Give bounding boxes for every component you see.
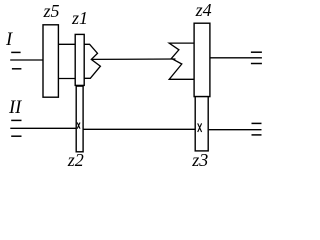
bearing hatch lower, left end of shaft II (11, 135, 21, 137)
gear z3 rectangle on shaft II (195, 97, 208, 151)
gear z4 rectangle on shaft I (194, 23, 210, 96)
bearing hatch lower, left end of shaft I (12, 68, 22, 70)
gear z2 rectangle on shaft II (76, 86, 83, 152)
wire: shaft I middle segment between clutch halves (91, 58, 175, 60)
bearing hatch lower, right end of shaft II (252, 134, 262, 136)
svg-text:I: I (5, 30, 13, 50)
fixed connection mark X on z3 (198, 123, 202, 132)
hub link lower line between z5 and z1 (58, 78, 75, 80)
svg-text:z4: z4 (195, 0, 212, 20)
wire: shaft II left segment (10, 127, 76, 129)
svg-text:z2: z2 (67, 150, 84, 170)
bearing hatch upper, right end of shaft II (252, 122, 262, 124)
wire: shaft I left segment (10, 59, 43, 61)
bearing hatch lower, right end of shaft I (251, 63, 262, 65)
gear z5 rectangle on shaft I (43, 25, 58, 97)
bearing hatch upper, right end of shaft I (251, 51, 262, 53)
svg-text:z1: z1 (71, 8, 88, 28)
wire: shaft II right segment (209, 129, 262, 131)
wire: shaft I right segment (210, 57, 262, 59)
bearing hatch upper, left end of shaft I (11, 51, 20, 53)
jaw clutch male half on z1 (84, 44, 100, 78)
bearing hatch upper, left end of shaft II (11, 119, 21, 121)
fixed connection mark x on z2 (77, 123, 80, 129)
svg-text:z3: z3 (191, 150, 208, 170)
hub link upper line between z5 and z1 (58, 43, 75, 45)
svg-text:II: II (8, 98, 22, 118)
wire: shaft II middle segment (83, 128, 195, 130)
gear z1 rectangle on shaft I (75, 34, 84, 85)
jaw clutch female half on z4 (169, 43, 194, 79)
svg-text:z5: z5 (43, 1, 60, 21)
